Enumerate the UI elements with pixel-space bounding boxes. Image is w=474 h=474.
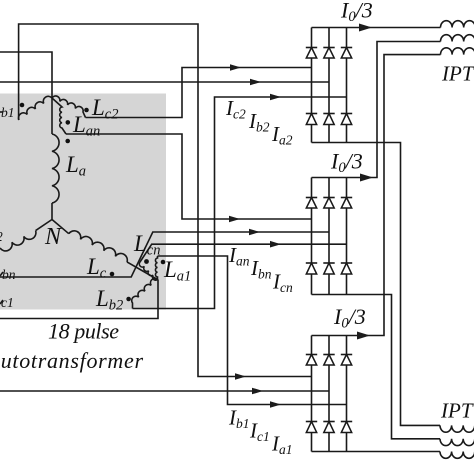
wire W2: left feed to apex node	[0, 52, 52, 98]
bridge 3 leg 2	[328, 336, 330, 452]
diode upper leg 2 bridge 2	[323, 197, 334, 199]
diode lower leg 2 bridge 3	[323, 421, 334, 423]
arrow I_b1 into bridge 3 leg 1	[235, 373, 246, 380]
wire W1: L_b1 terminal up, across top, down to bridge-3 input 1	[19, 24, 312, 377]
diode bridge 1 bottom rail	[312, 142, 347, 144]
svg-text:IPT: IPT	[441, 62, 474, 86]
diode lower leg 1 bridge 3	[306, 421, 317, 423]
arrow I_bn	[249, 229, 260, 236]
diode upper leg 3 bridge 2	[341, 197, 352, 199]
diode bridge 1 top rail	[312, 27, 347, 29]
diode bridge 3 top rail	[312, 335, 347, 337]
svg-text:2: 2	[0, 229, 3, 244]
diode lower leg 2 bridge 2	[323, 262, 334, 264]
arrow I_c2	[230, 64, 241, 71]
wire W10: c1 line from left edge to node below V_c	[0, 280, 158, 319]
wire W8: L_a1 output to bridge-3 leg 3 (I_a1)	[158, 256, 347, 405]
diode upper leg 3 bridge 3	[341, 354, 352, 356]
diode bridge 3 bottom rail	[312, 451, 347, 453]
cut stroke before b1	[0, 111, 3, 113]
inductor L_c2 coil	[52, 96, 86, 118]
diode bridge 2 bottom rail	[312, 294, 347, 296]
bridge 2 leg 1	[311, 178, 313, 295]
diode lower leg 2 bridge 1	[323, 113, 334, 115]
svg-text:I0/3: I0/3	[333, 304, 366, 332]
wire W5: L_an output to bridge-2 input 1 (I_an)	[66, 134, 312, 219]
inductor L_b1 coil	[19, 96, 52, 120]
inductor L_b2 coil	[132, 279, 158, 309]
diode lower leg 3 bridge 1	[341, 113, 352, 115]
diode lower leg 1 bridge 2	[306, 262, 317, 264]
svg-text:b1: b1	[1, 105, 15, 120]
top IPT coil 3	[441, 48, 474, 55]
diode upper leg 1 bridge 2	[306, 197, 317, 199]
wire: L_c end to vertex V_c	[127, 262, 158, 280]
bridge 3 positive rail up to top IPT coil 3	[347, 55, 441, 336]
wire W11: I_c1 line from left edge to bridge-3 leg 2	[0, 390, 329, 392]
diode lower leg 3 bridge 3	[341, 421, 352, 423]
svg-text:IPT: IPT	[440, 399, 474, 423]
bridge 3 negative rail to bottom IPT coil 3	[347, 451, 441, 453]
svg-text:18 pulse: 18 pulse	[48, 319, 119, 344]
wire W6: L_bn line from left edge, diagonal up, to bridge-2 leg 2 (I_bn)	[0, 232, 329, 277]
bridge 1 negative rail down to bottom IPT coil 1	[347, 143, 441, 426]
wire W7: L_cn output diagonal + line to bridge-2 leg 3 (I_cn)	[140, 244, 347, 262]
polarity dot L_c2	[84, 108, 89, 113]
diode upper leg 2 bridge 1	[323, 47, 334, 49]
bottom IPT coil 1	[440, 425, 474, 432]
svg-text:I0/3: I0/3	[340, 0, 373, 25]
inductor L_a coil	[51, 98, 53, 134]
arrow I_an	[229, 216, 240, 223]
bridge 2 leg 2	[328, 178, 330, 295]
bridge 3 leg 1	[311, 336, 313, 452]
svg-text:I0/3: I0/3	[330, 149, 363, 177]
svg-text:N: N	[44, 224, 63, 250]
diode upper leg 3 bridge 1	[341, 47, 352, 49]
inductor L_cn coil	[139, 262, 157, 280]
diode lower leg 1 bridge 1	[306, 113, 317, 115]
inductor L_c coil	[69, 231, 128, 262]
diode bridge 2 top rail	[312, 177, 347, 179]
wire W3: left feed I_b2 to bridge-1 leg 2	[0, 81, 329, 83]
grey autotransformer zone	[0, 94, 166, 310]
polarity dot L_b2	[126, 297, 131, 302]
arrow I_a2	[270, 94, 281, 101]
bridge 2 negative rail down to bottom IPT coil 2	[347, 295, 441, 439]
inductor L_an coil	[52, 98, 66, 134]
arrow I_c1	[252, 388, 263, 395]
cut stroke before bn	[0, 272, 3, 276]
top IPT coil 1	[441, 21, 474, 28]
inductor L_b coil (cut at left edge)	[0, 231, 36, 251]
arrow I_a1	[270, 401, 281, 408]
diode upper leg 1 bridge 1	[306, 47, 317, 49]
svg-text:autotransformer: autotransformer	[0, 348, 143, 373]
arrow I_b2	[250, 79, 261, 86]
polarity dot L_cn	[144, 259, 149, 264]
arrow I_cn	[270, 241, 281, 248]
bridge 2 positive rail up to top IPT coil 2	[347, 42, 441, 178]
inductor L_a1 coil	[155, 256, 157, 280]
svg-text:c1: c1	[1, 295, 14, 310]
bottom IPT coil 3	[440, 452, 474, 459]
bottom IPT coil 2	[440, 439, 474, 446]
svg-text:bn: bn	[2, 267, 16, 282]
bridge 1 positive rail to top IPT coil 1, arrow I_0/3	[347, 27, 441, 29]
polarity dot L_c	[110, 272, 115, 277]
polarity dot L_a	[65, 139, 70, 144]
bridge 1 leg 1	[311, 28, 313, 143]
polarity dot L_b1	[20, 103, 25, 108]
top IPT coil 2	[441, 35, 474, 42]
bridge 1 leg 3	[346, 28, 348, 143]
wire W4: L_c2 output to bridge-1 input 1 (I_c2)	[86, 68, 312, 118]
polarity dot L_an	[66, 120, 71, 125]
wire W9: L_b2 output to bridge-1 leg 3 (I_a2)	[133, 97, 347, 309]
bridge 1 leg 2	[328, 28, 330, 143]
diode lower leg 3 bridge 2	[341, 262, 352, 264]
bridge 2 leg 3	[346, 178, 348, 295]
diode upper leg 2 bridge 3	[323, 354, 334, 356]
node N star point	[36, 203, 69, 234]
bridge 3 leg 3	[346, 336, 348, 452]
diode upper leg 1 bridge 3	[306, 354, 317, 356]
polarity dot L_a1	[161, 260, 166, 265]
cut stroke before c1	[0, 300, 3, 304]
